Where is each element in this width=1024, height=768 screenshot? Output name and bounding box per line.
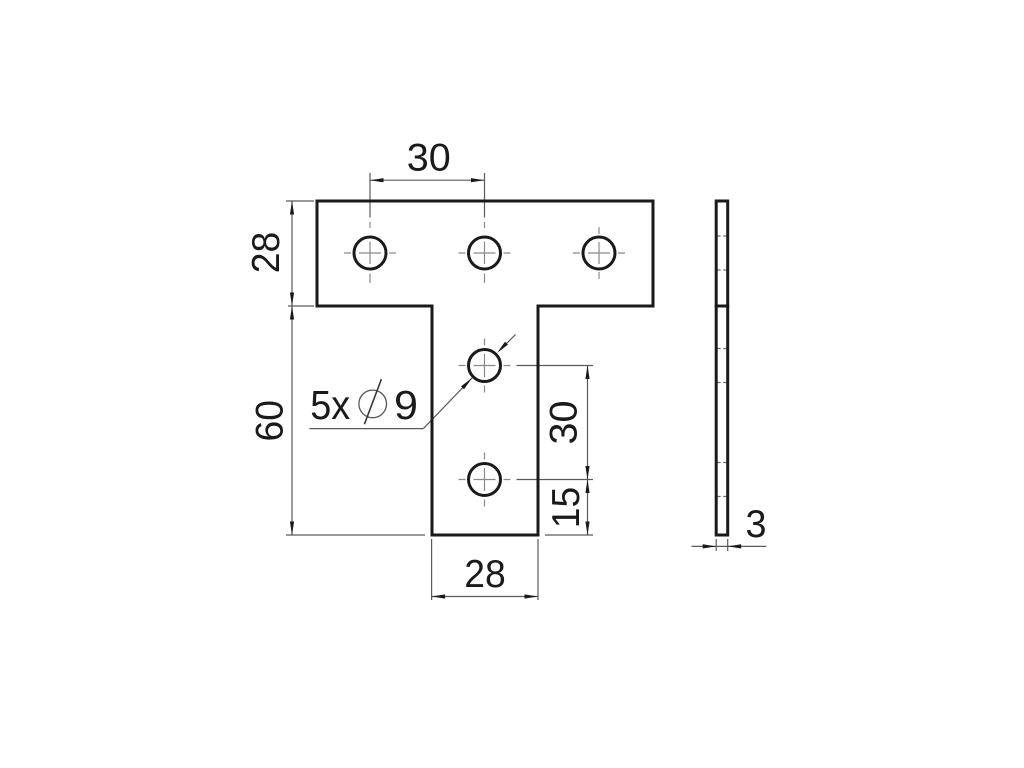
svg-text:15: 15 [545, 487, 588, 529]
svg-text:5x: 5x [310, 382, 350, 428]
svg-text:28: 28 [464, 553, 506, 596]
svg-text:3: 3 [746, 503, 767, 546]
svg-text:30: 30 [543, 401, 586, 445]
svg-text:30: 30 [407, 137, 451, 180]
svg-text:60: 60 [249, 400, 292, 442]
svg-text:9: 9 [394, 382, 418, 428]
svg-text:28: 28 [245, 232, 288, 274]
